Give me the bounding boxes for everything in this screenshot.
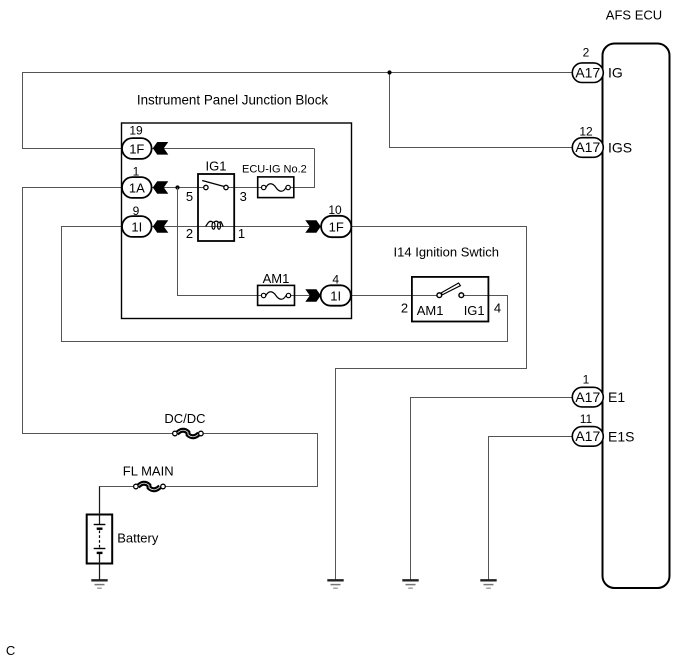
ground (E1) — [402, 580, 418, 588]
svg-text:1: 1 — [238, 226, 245, 241]
node junction dot on 1A wire — [175, 185, 179, 189]
ground (battery) — [91, 580, 107, 588]
connector A17 pin 1 E1 — [572, 372, 625, 407]
svg-text:4: 4 — [494, 301, 501, 316]
wire battery negative to ground — [99, 553, 101, 580]
ground (coil return) — [327, 580, 343, 588]
svg-text:IG1: IG1 — [206, 159, 227, 174]
fusible link DC/DC — [164, 411, 205, 437]
svg-text:9: 9 — [133, 204, 140, 218]
svg-text:AM1: AM1 — [263, 271, 290, 286]
svg-text:19: 19 — [129, 124, 143, 138]
svg-text:I14 Ignition Swtich: I14 Ignition Swtich — [394, 244, 500, 259]
svg-text:Instrument Panel Junction Bloc: Instrument Panel Junction Block — [137, 92, 329, 107]
wire 1A feed: from DC/DC up left edge to 1A(1), and across to relay pin 5 — [23, 188, 206, 434]
svg-text:1F: 1F — [329, 219, 344, 234]
svg-text:A17: A17 — [575, 64, 600, 80]
connector 1I pin 4 (output) — [305, 273, 351, 306]
ground (E1S) — [480, 580, 496, 588]
relay IG1 — [186, 159, 247, 242]
fusible link FL MAIN — [123, 463, 174, 489]
svg-text:12: 12 — [579, 124, 593, 138]
wire relay pin3 to ECU-IG No.2 fuse — [226, 187, 264, 189]
svg-text:A17: A17 — [575, 139, 600, 155]
svg-text:1I: 1I — [131, 219, 142, 234]
connector A17 pin 12 IGS — [572, 124, 632, 157]
svg-text:E1: E1 — [608, 389, 625, 405]
wire coil ground: 1F(10) right, down, left, down to ground — [336, 227, 527, 581]
svg-text:ECU-IG No.2: ECU-IG No.2 — [242, 164, 307, 176]
connector A17 pin 2 IG — [572, 46, 622, 83]
svg-text:1: 1 — [583, 372, 590, 386]
connector 1I pin 9 (input) — [122, 204, 168, 237]
wire AM1 branch: junction down, through AM1 fuse to ignition switch AM1 contact — [178, 188, 440, 296]
wire 1I(9) coil feed: ignition switch IG1 contact down and left loop to 1I(9), through relay coil to 1F(10) — [62, 227, 508, 342]
connector A17 pin 11 E1S — [572, 412, 634, 446]
svg-text:2: 2 — [583, 46, 590, 60]
wire DC/DC right segment to FL MAIN via right vertical — [163, 434, 318, 487]
svg-text:C: C — [6, 643, 15, 658]
svg-text:2: 2 — [186, 226, 193, 241]
svg-text:DC/DC: DC/DC — [164, 411, 205, 426]
svg-text:Battery: Battery — [117, 531, 159, 546]
wire IGS branch from IG net — [390, 73, 573, 148]
battery — [87, 487, 159, 581]
svg-text:E1S: E1S — [608, 428, 634, 444]
I14 Ignition Switch box — [394, 244, 500, 321]
connector 1F pin 19 (input) — [122, 124, 168, 159]
fuse AM1 — [258, 271, 295, 305]
svg-text:1A: 1A — [129, 180, 145, 195]
wire FL MAIN left segment down to battery — [100, 487, 136, 515]
AFS ECU box — [603, 8, 670, 588]
connector 1A pin 1 (input) — [122, 165, 168, 198]
wire IG net: A17-2 IG left along top, down left edge, to 1F(19) — [23, 73, 573, 149]
svg-text:1: 1 — [133, 165, 140, 179]
svg-text:AFS ECU: AFS ECU — [606, 8, 662, 23]
svg-text:IG: IG — [608, 65, 623, 81]
svg-text:1F: 1F — [129, 141, 144, 156]
svg-text:IGS: IGS — [608, 139, 632, 155]
svg-text:1I: 1I — [330, 288, 341, 303]
ignition switch contacts and lever — [401, 283, 501, 318]
connector 1F pin 10 (output) — [305, 203, 351, 237]
svg-text:2: 2 — [401, 301, 408, 316]
svg-text:3: 3 — [240, 189, 247, 204]
svg-text:10: 10 — [328, 203, 342, 217]
fuse ECU-IG No.2 — [242, 164, 307, 198]
svg-text:4: 4 — [332, 273, 339, 287]
page letter C — [6, 643, 15, 658]
svg-text:A17: A17 — [575, 428, 600, 444]
svg-text:5: 5 — [186, 189, 193, 204]
svg-text:AM1: AM1 — [417, 303, 444, 318]
wire E1 to ground — [411, 398, 572, 581]
wire ECU-IG No.2 fuse output up to 1F(19) row — [288, 149, 314, 188]
wire E1S to ground — [489, 437, 572, 581]
svg-text:FL MAIN: FL MAIN — [123, 463, 174, 478]
svg-text:A17: A17 — [575, 389, 600, 405]
Instrument Panel Junction Block box — [122, 92, 352, 318]
svg-text:IG1: IG1 — [464, 303, 485, 318]
node junction dot on IG wire — [387, 70, 391, 74]
svg-text:11: 11 — [580, 412, 593, 426]
